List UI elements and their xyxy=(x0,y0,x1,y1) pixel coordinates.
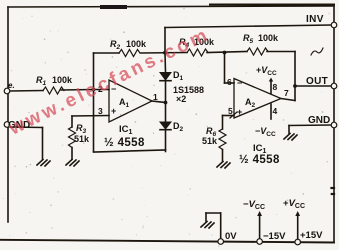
op-amp A1 xyxy=(109,80,152,122)
svg-text:5: 5 xyxy=(228,106,233,116)
wire OUT line xyxy=(295,85,331,87)
wire pin3 to R3 xyxy=(72,116,109,128)
diode D1 xyxy=(160,73,171,81)
ground under R3 xyxy=(66,160,79,167)
wire pin6 riser xyxy=(225,53,235,84)
terminal GND right xyxy=(331,122,337,128)
ground 0V xyxy=(201,222,214,229)
svg-text:0V: 0V xyxy=(225,231,237,242)
wire GND right xyxy=(289,125,332,133)
node A1 output xyxy=(164,101,168,105)
node X junction R2/R4/INV xyxy=(163,51,167,55)
node pin2 junction R1/R2 xyxy=(92,88,96,92)
svg-text:3: 3 xyxy=(98,106,103,116)
svg-text:A1: A1 xyxy=(119,97,130,109)
svg-text:8: 8 xyxy=(273,82,278,92)
resistor R5 xyxy=(247,48,268,55)
svg-text:1: 1 xyxy=(153,92,158,102)
terminal +15V xyxy=(295,239,301,245)
svg-text:GND: GND xyxy=(308,115,330,126)
terminal OUT xyxy=(331,83,337,89)
svg-text:+VCC: +VCC xyxy=(256,65,277,77)
wire node to D2 xyxy=(165,103,167,123)
wire -Vcc arrow xyxy=(257,211,262,239)
svg-text:51k: 51k xyxy=(74,134,90,144)
terminal INV xyxy=(331,22,337,28)
svg-text:IC1: IC1 xyxy=(119,124,133,136)
wire 0V to ground xyxy=(206,213,221,239)
wire A2 output to OUT xyxy=(281,52,295,101)
svg-text:6: 6 xyxy=(227,77,232,87)
svg-text:−: − xyxy=(237,78,242,88)
svg-text:+VCC: +VCC xyxy=(283,198,305,210)
svg-text:A2: A2 xyxy=(245,97,256,109)
svg-text:4: 4 xyxy=(273,106,278,116)
wire R2 left vertical xyxy=(93,53,95,90)
wire A1 output to diode column xyxy=(152,101,166,103)
svg-text:+: + xyxy=(237,107,242,117)
ground right xyxy=(284,134,297,141)
svg-text:+15V: +15V xyxy=(300,230,323,241)
diode column top lead xyxy=(164,53,167,72)
svg-text:+: + xyxy=(111,106,116,116)
resistor R6 xyxy=(219,129,226,161)
svg-text:−15V: −15V xyxy=(263,231,286,242)
svg-text:½ 4558: ½ 4558 xyxy=(104,137,145,149)
wire INV line xyxy=(165,25,331,53)
enclosure box left edge xyxy=(7,7,9,222)
terminal 0V xyxy=(218,239,224,245)
pin5 slash tick xyxy=(230,112,237,118)
wire pin5 xyxy=(223,116,235,130)
svg-text:OUT: OUT xyxy=(306,76,328,87)
svg-text:R2: R2 xyxy=(110,39,121,51)
svg-text:R1: R1 xyxy=(36,75,47,87)
watermark www.elecfans.com xyxy=(5,24,213,140)
pin 4 supply lead xyxy=(270,104,272,119)
svg-text:R5: R5 xyxy=(243,33,254,45)
diode D2 xyxy=(160,122,171,130)
wire pin2 stub xyxy=(94,89,110,91)
resistor R2 xyxy=(119,50,140,57)
svg-text:−VCC: −VCC xyxy=(255,126,276,138)
node junction R4/R5/pin6 xyxy=(223,51,227,55)
terminal GND left xyxy=(4,122,10,128)
svg-text:100k: 100k xyxy=(258,33,279,43)
svg-text:100k: 100k xyxy=(52,75,73,85)
svg-text:51k: 51k xyxy=(202,136,218,146)
svg-text:½ 4558: ½ 4558 xyxy=(239,154,280,166)
svg-text:−VCC: −VCC xyxy=(243,199,265,211)
enclosure box right edge xyxy=(333,5,335,242)
svg-text:×2: ×2 xyxy=(176,94,186,104)
enclosure box bottom edge / 0V rail xyxy=(0,240,334,243)
resistor R4 xyxy=(187,49,208,56)
op-amp A2 xyxy=(234,79,281,119)
enclosure box top edge xyxy=(8,5,334,10)
wire GND left xyxy=(10,127,43,159)
scan artifact nubs (decorative) xyxy=(332,188,335,194)
AC squiggle mark xyxy=(311,48,323,55)
resistor R3 xyxy=(69,127,76,159)
wire +Vcc arrow xyxy=(295,211,300,239)
terminal -15V xyxy=(257,239,263,245)
resistor R1 xyxy=(43,87,64,94)
ground left xyxy=(37,160,50,167)
node OUT junction xyxy=(293,84,297,88)
wire top row from R2 corner to R5 corner xyxy=(94,52,296,54)
wire D2 return to pin2 net xyxy=(94,90,166,153)
svg-text:100k: 100k xyxy=(126,39,147,49)
svg-text:7: 7 xyxy=(284,88,289,98)
svg-text:INV: INV xyxy=(306,14,324,25)
svg-text:D1: D1 xyxy=(173,70,184,82)
ground under R6 xyxy=(217,162,230,169)
terminal e input xyxy=(4,88,10,94)
svg-text:e.: e. xyxy=(8,81,15,90)
wire D1 to node xyxy=(165,81,167,103)
wire input e to A1 pin2 xyxy=(10,90,94,92)
pin 8 supply lead xyxy=(269,78,273,94)
svg-text:D2: D2 xyxy=(173,121,184,133)
